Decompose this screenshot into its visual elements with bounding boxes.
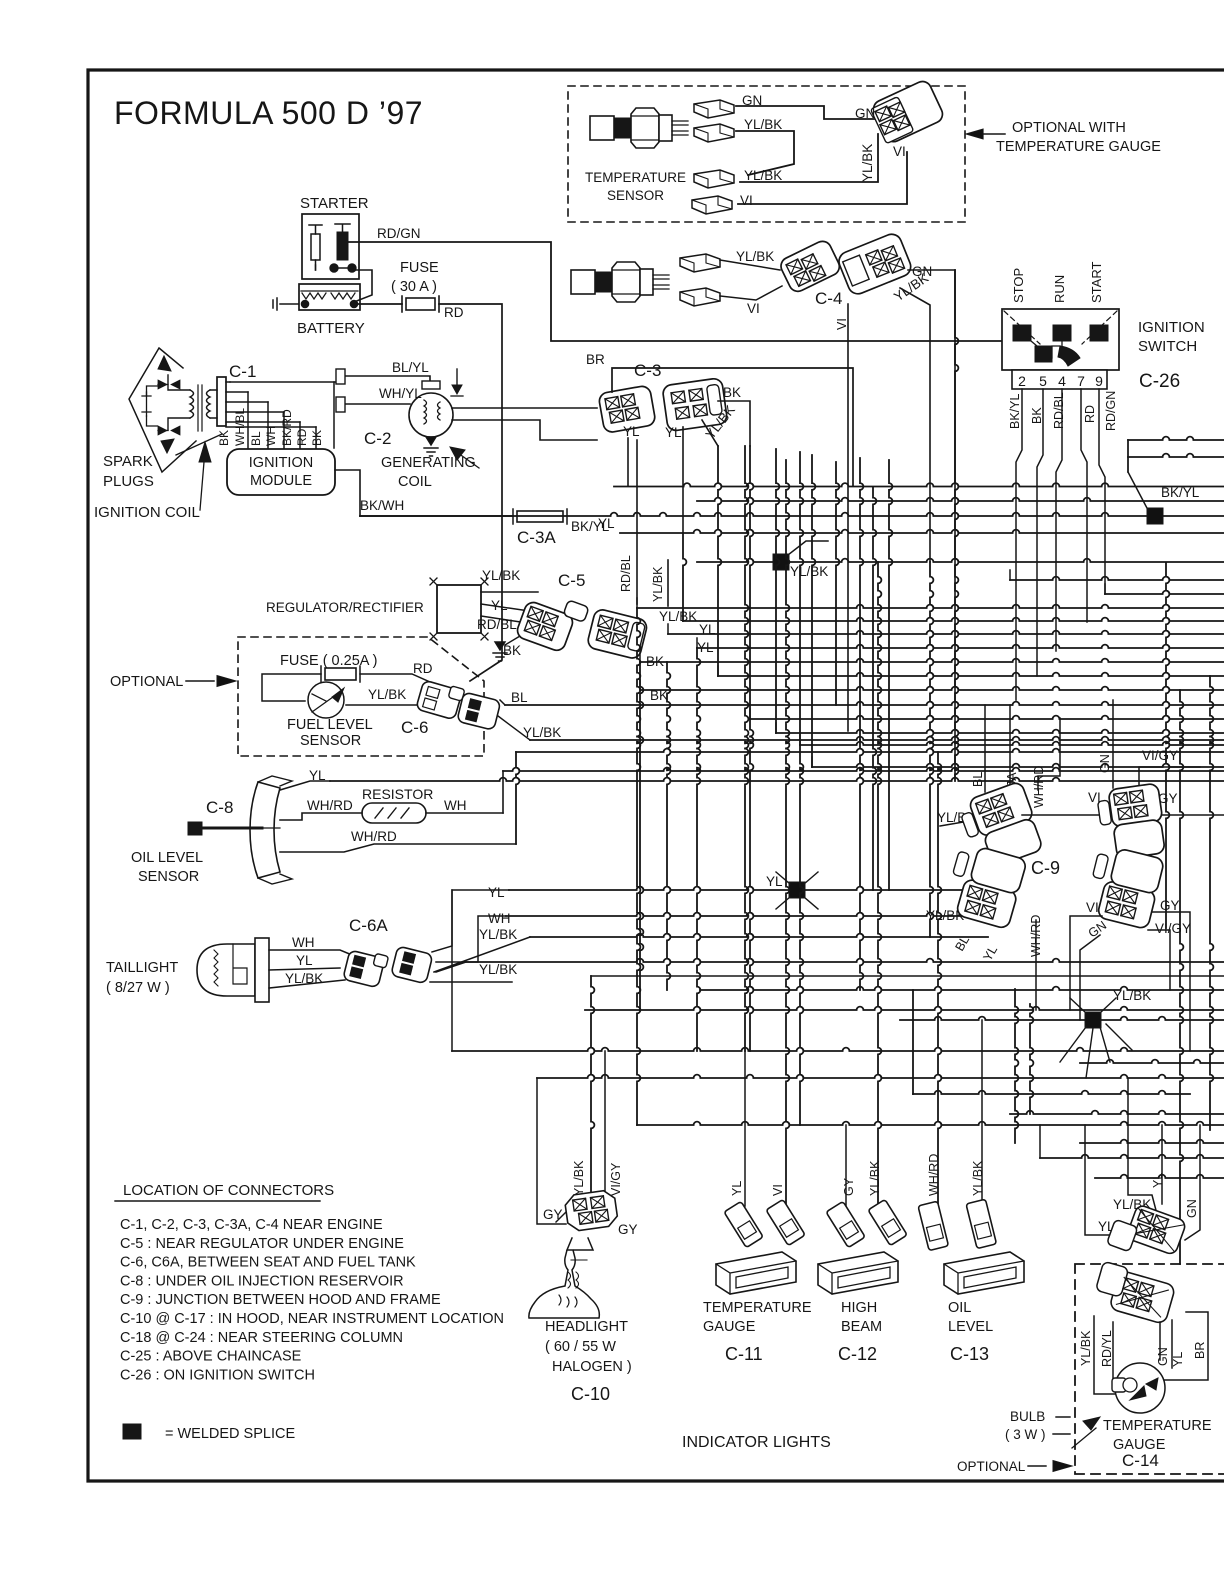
wire RD/BL up from C-5: [636, 440, 638, 604]
wire VI sensor to C-4: [720, 286, 782, 300]
connector C-9 upper-left: [957, 781, 1046, 872]
svg-text:BK: BK: [217, 430, 231, 446]
svg-text:WH/BL: WH/BL: [233, 408, 247, 446]
svg-text:YL/BK: YL/BK: [868, 1160, 882, 1196]
arrow ignition coil: [200, 450, 205, 510]
svg-text:YL: YL: [980, 943, 1000, 963]
wire row y745: [800, 742, 1224, 745]
wire drop x750 lower: [750, 719, 753, 1051]
wire BK/WH to fuse C-3A: [360, 515, 513, 517]
fuse 0.25A: [325, 668, 356, 680]
wire WH/RD riser x516: [516, 752, 519, 844]
svg-text:RD: RD: [295, 428, 309, 446]
svg-text:WH: WH: [444, 798, 467, 813]
svg-text:INDICATOR LIGHTS: INDICATOR LIGHTS: [682, 1434, 831, 1451]
svg-text:YL/BK: YL/BK: [744, 117, 782, 132]
svg-text:YL/BK: YL/BK: [479, 962, 517, 977]
wire VI drop to C-11: [786, 460, 789, 1204]
svg-text:C-3A: C-3A: [517, 528, 556, 547]
svg-text:RD: RD: [444, 305, 464, 320]
svg-text:SENSOR: SENSOR: [300, 733, 361, 749]
svg-text:YL: YL: [598, 516, 615, 531]
svg-text:C-9: C-9: [1031, 858, 1060, 878]
svg-text:COIL: COIL: [398, 474, 432, 490]
wire long vertical x745 to C-11: [745, 446, 748, 1051]
svg-text:YL/BK: YL/BK: [971, 1160, 985, 1196]
temperature gauge symbol: [1115, 1363, 1165, 1413]
wire YL/BK diagonal from C-6: [498, 716, 530, 740]
svg-text:GAUGE: GAUGE: [703, 1319, 756, 1335]
svg-text:FUEL LEVEL: FUEL LEVEL: [287, 717, 373, 733]
svg-text:START: START: [1089, 262, 1104, 303]
pin terminal YL/BK lower: [694, 170, 734, 188]
oil sensor probe: [188, 822, 202, 835]
wire VI from C-4 down: [847, 304, 849, 731]
wire stub with ground arrow: [456, 369, 458, 388]
svg-text:YL/BK: YL/BK: [482, 568, 520, 583]
wires regulator to C-5: [481, 592, 538, 636]
svg-text:WH: WH: [264, 426, 278, 446]
svg-text:RD/BL: RD/BL: [1052, 392, 1066, 429]
wire drop x800: [800, 452, 803, 745]
wire battery to starter: [354, 270, 372, 302]
switch contact RUN: [1053, 325, 1071, 341]
svg-text:SPARK: SPARK: [103, 453, 153, 470]
wire VI into C-9 lower-right: [1070, 916, 1102, 1010]
wire battery to fuse: [358, 303, 402, 305]
svg-text:C-1, C-2, C-3, C-3A, C-4 NEAR: C-1, C-2, C-3, C-3A, C-4 NEAR ENGINE: [120, 1217, 383, 1233]
connector gauge side inside box: [1092, 1261, 1177, 1324]
fuel level sensor dashed box: [238, 637, 484, 756]
indicator light C-11 pins: [724, 1201, 763, 1247]
wire vertical x591 YL/BK headlight: [591, 976, 594, 1199]
wire row y1125: [637, 1122, 1224, 1125]
spark gap upper: [158, 380, 180, 389]
switch contact common: [1035, 346, 1052, 362]
svg-text:TEMPERATURE GAUGE: TEMPERATURE GAUGE: [996, 139, 1161, 155]
wire elbow stub: [775, 723, 777, 733]
wire elbow x591 row y976: [591, 975, 1224, 977]
svg-text:MODULE: MODULE: [250, 473, 312, 489]
svg-text:RD/BL: RD/BL: [619, 555, 633, 592]
connector C-9 lower-right: [1083, 844, 1164, 930]
wire drop x955 lower: [955, 270, 958, 781]
wire vertical x913: [912, 990, 914, 1094]
svg-text:LEVEL: LEVEL: [948, 1319, 993, 1335]
connector C-5 left half: [515, 587, 589, 656]
svg-text:VI/GY: VI/GY: [1142, 748, 1178, 763]
regulator rectifier body: [437, 585, 481, 633]
wire BR from C-3: [612, 368, 853, 486]
wire GY from C-9 lower-right: [1152, 912, 1190, 1051]
arrow optional to box: [1028, 1465, 1046, 1467]
wire VI: [738, 152, 907, 204]
underline: [115, 1200, 320, 1202]
svg-text:GY: GY: [842, 1177, 856, 1196]
wire YL/BK row y740: [530, 737, 1224, 740]
ignition module box: [227, 449, 335, 495]
wire sensor to C-6: [346, 704, 426, 706]
wire YL from C-8: [280, 781, 330, 790]
resistor body: [362, 803, 426, 823]
svg-text:C-3: C-3: [634, 361, 661, 380]
connector gauge plug (optional): [869, 79, 946, 146]
welded splice YL: [789, 882, 805, 898]
svg-text:YL/BK: YL/BK: [479, 927, 517, 942]
svg-text:SWITCH: SWITCH: [1138, 338, 1197, 355]
wire vertical x1210: [1210, 676, 1213, 1130]
svg-text:( 8/27 W ): ( 8/27 W ): [106, 980, 170, 996]
wire RD/GN starter to ignition switch: [348, 242, 1002, 341]
svg-text:TEMPERATURE: TEMPERATURE: [1103, 1418, 1212, 1434]
starter contact right (solid): [337, 232, 348, 260]
wire BK/WH from module: [335, 470, 360, 516]
wire row y1178: [1095, 1175, 1224, 1178]
wire row y594: [1105, 591, 1224, 594]
ground at generating coil: [424, 437, 438, 456]
svg-text:RUN: RUN: [1052, 275, 1067, 303]
wire JA into C-9 upper-left: [1009, 705, 1011, 792]
svg-text:YL: YL: [1151, 1173, 1165, 1188]
svg-text:GY: GY: [1160, 898, 1180, 913]
svg-text:SENSOR: SENSOR: [138, 869, 199, 885]
svg-text:GENERATING: GENERATING: [381, 455, 476, 471]
arrow line: [186, 680, 214, 682]
svg-text:( 30 A ): ( 30 A ): [391, 279, 437, 295]
wire BK row y690: [640, 687, 1224, 690]
svg-text:FORMULA 500 D ’97: FORMULA 500 D ’97: [114, 95, 423, 131]
starter contact left: [311, 234, 320, 260]
wire elbow stub: [717, 666, 719, 676]
svg-text:OPTIONAL: OPTIONAL: [110, 674, 183, 690]
wire WH/RD from C-9 lower-left: [1035, 920, 1037, 1010]
indicator light C-12 pins: [826, 1201, 865, 1247]
connector C-6 right half: [457, 692, 501, 730]
connector C-5 right half: [586, 608, 648, 660]
generating coil C-2 circle: [409, 393, 453, 437]
wire drop x718: [718, 446, 721, 676]
wire drop x750: [750, 446, 753, 719]
svg-text:RESISTOR: RESISTOR: [362, 786, 433, 802]
svg-text:OPTIONAL WITH: OPTIONAL WITH: [1012, 120, 1126, 136]
wire WH/YL: [341, 403, 410, 405]
spark gap lower: [158, 426, 180, 435]
wire row y1158: [1040, 1155, 1224, 1158]
wire row y1051: [452, 1048, 1224, 1051]
wire BK row y662: [640, 659, 1224, 662]
arrow into gauge: [1072, 1428, 1096, 1448]
wire VI into C-9 upper-right: [1022, 814, 1106, 816]
starter solenoid box: [302, 214, 359, 279]
svg-text:BK: BK: [310, 430, 324, 446]
wire YL/BK diagonal tail: [436, 962, 466, 972]
svg-text:WH/RD: WH/RD: [351, 829, 397, 844]
svg-text:YL/BK: YL/BK: [651, 566, 665, 602]
wire splice fan: [776, 872, 818, 909]
wire GY loop headlight: [537, 1078, 566, 1224]
svg-text:RD: RD: [1083, 405, 1097, 423]
wire YL/BK drop to C-12: [878, 562, 881, 1204]
wire RD to C-6: [360, 674, 448, 690]
svg-text:BL/YL: BL/YL: [392, 360, 429, 375]
wires taillight to C-6A: [269, 950, 352, 988]
wire row y676: [718, 673, 1224, 676]
wire YL continues: [330, 778, 1224, 781]
wire BL row y705: [505, 702, 1224, 705]
wire vertical x637 to row 1125: [637, 608, 640, 1125]
wire YL/BK row y1020: [900, 1017, 1224, 1020]
wire elbow stub: [1009, 570, 1011, 580]
wire vertical x1015: [1015, 989, 1018, 1143]
svg-text:C-26: C-26: [1139, 371, 1180, 392]
svg-text:2: 2: [1018, 373, 1026, 389]
pin terminal YL/BK upper: [694, 124, 734, 142]
wire splice diagonal: [1128, 440, 1148, 510]
svg-text:VI: VI: [835, 318, 849, 330]
wire pin2 BK/YL drop: [1016, 389, 1022, 700]
svg-text:STARTER: STARTER: [300, 195, 369, 212]
svg-text:YL/BK: YL/BK: [523, 725, 561, 740]
wire GY from C-9 upper-right: [1150, 814, 1224, 816]
svg-text:LOCATION OF CONNECTORS: LOCATION OF CONNECTORS: [123, 1182, 334, 1199]
wire drop x889: [889, 460, 892, 890]
connector C-1 body: [217, 377, 226, 426]
svg-text:WH/YL: WH/YL: [379, 386, 422, 401]
svg-text:GY: GY: [618, 1222, 638, 1237]
wire YL vertical to gauge connector: [1161, 1125, 1163, 1204]
svg-text:5: 5: [1039, 373, 1047, 389]
svg-text:C-26 : ON IGNITION SWITCH: C-26 : ON IGNITION SWITCH: [120, 1367, 315, 1383]
wire BK from C-3 right: [718, 401, 750, 446]
wire drop x860: [860, 458, 863, 740]
switch contact START: [1090, 325, 1108, 341]
connector C-4 right half: [836, 231, 914, 297]
wire YL/BK into C-9 upper-left: [940, 820, 975, 826]
svg-text:WH/RD: WH/RD: [927, 1154, 941, 1196]
wire WH/RD continues: [516, 749, 1224, 752]
wire YL/BK row y562: [697, 559, 1224, 562]
wire WH continues: [503, 768, 1224, 771]
svg-text:C-14: C-14: [1122, 1451, 1159, 1470]
wire BL diagonal from C-6: [500, 700, 505, 705]
arrow line: [972, 133, 1005, 135]
svg-text:C-6, C6A, BETWEEN SEAT AND FUE: C-6, C6A, BETWEEN SEAT AND FUEL TANK: [120, 1255, 416, 1271]
wire elbow stub: [799, 735, 801, 745]
oil level sensor body: [250, 782, 280, 878]
svg-text:BK: BK: [723, 385, 741, 400]
wire row y1143: [1080, 1140, 1224, 1143]
wire YL/BK diagonal from C-3 right: [702, 420, 718, 446]
svg-text:YL: YL: [296, 953, 313, 968]
wire row y1010: [585, 1007, 1224, 1010]
wire YL/BK up from C-5: [667, 560, 669, 606]
wire GY hook: [556, 1212, 566, 1222]
wire drop x860 lower: [860, 740, 863, 990]
svg-text:BK/RD: BK/RD: [280, 409, 294, 446]
pin terminal GN: [694, 100, 734, 118]
battery: [299, 284, 360, 310]
svg-text:BR: BR: [586, 352, 605, 367]
svg-text:GY: GY: [543, 1207, 563, 1222]
svg-text:( 60 / 55 W: ( 60 / 55 W: [545, 1339, 616, 1355]
indicator light C-13 lamp body: [944, 1252, 1024, 1294]
svg-text:BL: BL: [249, 431, 263, 446]
wire elbow stub: [639, 652, 641, 662]
svg-text:IGNITION: IGNITION: [249, 455, 313, 471]
taillight bulb: [197, 944, 255, 996]
svg-text:STOP: STOP: [1011, 268, 1026, 303]
arrowhead to dashed box: [966, 129, 983, 139]
wire fuse loop: [262, 674, 321, 701]
svg-text:C-4: C-4: [815, 289, 842, 308]
wire elbow stub: [636, 598, 638, 608]
temperature sensor near engine: [571, 262, 669, 302]
svg-text:C-12: C-12: [838, 1344, 877, 1364]
wire WH/RD into C-9 upper-left: [1038, 718, 1060, 790]
wire row y608: [637, 605, 1224, 608]
optional temperature sensor dashed box: [568, 86, 965, 222]
wires C-6A to harness: [432, 890, 509, 952]
wire YL from C-3 left: [627, 438, 629, 486]
wire vertical x1166: [1166, 563, 1169, 928]
wire elbow stub: [682, 611, 684, 621]
svg-text:OIL: OIL: [948, 1300, 971, 1316]
indicator light C-11 lamp body: [716, 1252, 796, 1294]
wire YL drop to C-11: [744, 1051, 746, 1206]
wire WH/RD drop to C-13: [938, 752, 941, 1208]
connector pin strip C-26: [1012, 370, 1107, 389]
wire pin5 BK drop: [1037, 389, 1043, 676]
wire drop x930 lower: [930, 562, 933, 937]
wire VI/GY from C-9 lower-right: [1148, 930, 1170, 990]
wire GY drop to C-12: [845, 1125, 847, 1206]
wire elbow stub: [1104, 584, 1106, 594]
wire row y1078: [537, 1075, 1224, 1078]
svg-text:BATTERY: BATTERY: [297, 320, 365, 337]
svg-text:PLUGS: PLUGS: [103, 473, 154, 490]
svg-text:7: 7: [1077, 373, 1085, 389]
svg-text:YL/BK: YL/BK: [860, 144, 875, 182]
wire elbow stub: [811, 757, 813, 767]
svg-text:YL/BK: YL/BK: [790, 564, 828, 579]
connector C-4 left half: [778, 238, 842, 294]
svg-text:YL/BK: YL/BK: [1113, 988, 1151, 1003]
svg-text:C-9 : JUNCTION BETWEEN HOOD AN: C-9 : JUNCTION BETWEEN HOOD AND FRAME: [120, 1292, 441, 1308]
wire splice feed: [788, 541, 828, 555]
wire elbow stub: [749, 709, 751, 719]
spark plugs kite outline: [129, 348, 196, 472]
wire stub right y440: [1128, 437, 1224, 440]
wire BK/WH C-3A BK/YL row y516: [360, 513, 1224, 516]
svg-text:IGNITION COIL: IGNITION COIL: [94, 504, 200, 521]
switch rotor wedge: [1058, 346, 1080, 366]
svg-text:YL: YL: [623, 424, 640, 439]
wire WH/RD from C-8 to resistor: [280, 813, 362, 820]
svg-text:C-25 : ABOVE CHAINCASE: C-25 : ABOVE CHAINCASE: [120, 1349, 302, 1365]
svg-text:( 3 W ): ( 3 W ): [1005, 1427, 1046, 1442]
wire BL/YL: [341, 376, 430, 383]
wire splice fan lower: [1060, 998, 1132, 1078]
svg-text:GN: GN: [1185, 1199, 1199, 1218]
wire RD fuse to fuel sensor: [439, 304, 502, 681]
wire YL/BK sensor to C-4: [720, 260, 780, 270]
wire drop x697 lower: [697, 648, 700, 1051]
starter contact dots: [330, 264, 338, 272]
switch contact STOP: [1013, 325, 1031, 341]
svg-text:C-6A: C-6A: [349, 916, 388, 935]
headlight connector head: [564, 1189, 619, 1232]
wire YL/BK drop to C-13: [981, 1020, 983, 1206]
wire YL/BK elbow to gauge connector: [1128, 1078, 1158, 1218]
wire drop x776: [776, 449, 779, 733]
svg-text:YL/BK: YL/BK: [572, 1160, 586, 1196]
svg-text:YL: YL: [1171, 1352, 1185, 1367]
fuse C-3A: [517, 511, 563, 522]
wire drop x683 continues: [683, 533, 686, 621]
wire drop x873 VI: [873, 487, 876, 890]
wire YL/BK row y634: [668, 631, 1224, 634]
svg-text:RD/BL: RD/BL: [477, 617, 517, 632]
svg-text:YL/BK: YL/BK: [368, 687, 406, 702]
svg-text:VI: VI: [747, 301, 760, 316]
svg-text:BEAM: BEAM: [841, 1319, 882, 1335]
svg-text:FUSE ( 0.25A ): FUSE ( 0.25A ): [280, 653, 378, 669]
svg-text:TEMPERATURE: TEMPERATURE: [703, 1300, 812, 1316]
connector gauge harness side: [1107, 1199, 1187, 1267]
svg-text:BL: BL: [511, 690, 528, 705]
svg-text:RD/YL: RD/YL: [1100, 1330, 1114, 1367]
wire YL/BK row y962: [466, 959, 1224, 962]
wires connector to gauge: [1094, 1312, 1208, 1394]
temperature sensor (optional): [590, 108, 688, 148]
wire WH row y916: [506, 913, 1010, 916]
pin terminal YL/BK: [680, 254, 720, 272]
wire bundle row y486: [614, 483, 1224, 486]
wire pin4 RD/BL drop: [1056, 389, 1062, 651]
wire drop x836: [836, 462, 839, 705]
wire row y1063: [1080, 1060, 1224, 1063]
wire row y1114: [1010, 1111, 1224, 1114]
svg-text:RD/GN: RD/GN: [1104, 391, 1118, 431]
arrow to spark plugs lower: [161, 439, 174, 453]
wire YL/BK from C-4: [900, 288, 930, 562]
wire row y767: [812, 764, 1224, 767]
wire drop x812: [812, 455, 815, 767]
svg-text:TEMPERATURE: TEMPERATURE: [585, 170, 686, 185]
wire vertical x1030: [1030, 1004, 1033, 1114]
svg-text:VI: VI: [1086, 900, 1099, 915]
wire GN from C-4: [908, 270, 955, 776]
svg-text:BK: BK: [1030, 407, 1044, 424]
svg-text:4: 4: [1058, 373, 1066, 389]
wire elbow stub: [639, 680, 641, 690]
bulb dashes: [1053, 1417, 1070, 1434]
svg-text:C-11: C-11: [725, 1344, 763, 1364]
wire row y733: [776, 730, 1224, 733]
headlight bulb body: [529, 1238, 599, 1318]
wire row y621: [683, 618, 1224, 621]
svg-text:SENSOR: SENSOR: [607, 188, 664, 203]
wire row y990: [700, 987, 1224, 990]
wire pin9 RD/GN drop: [1099, 389, 1105, 594]
svg-text:VI: VI: [893, 144, 906, 159]
wire GN sensor to plug: [736, 106, 874, 119]
arrow generating coil: [458, 453, 479, 468]
connector C-6A right half: [391, 946, 433, 984]
wire YL elbow to gauge connector: [1085, 1125, 1140, 1235]
wire YL row y890: [509, 887, 966, 890]
pin terminal VI: [692, 196, 732, 214]
